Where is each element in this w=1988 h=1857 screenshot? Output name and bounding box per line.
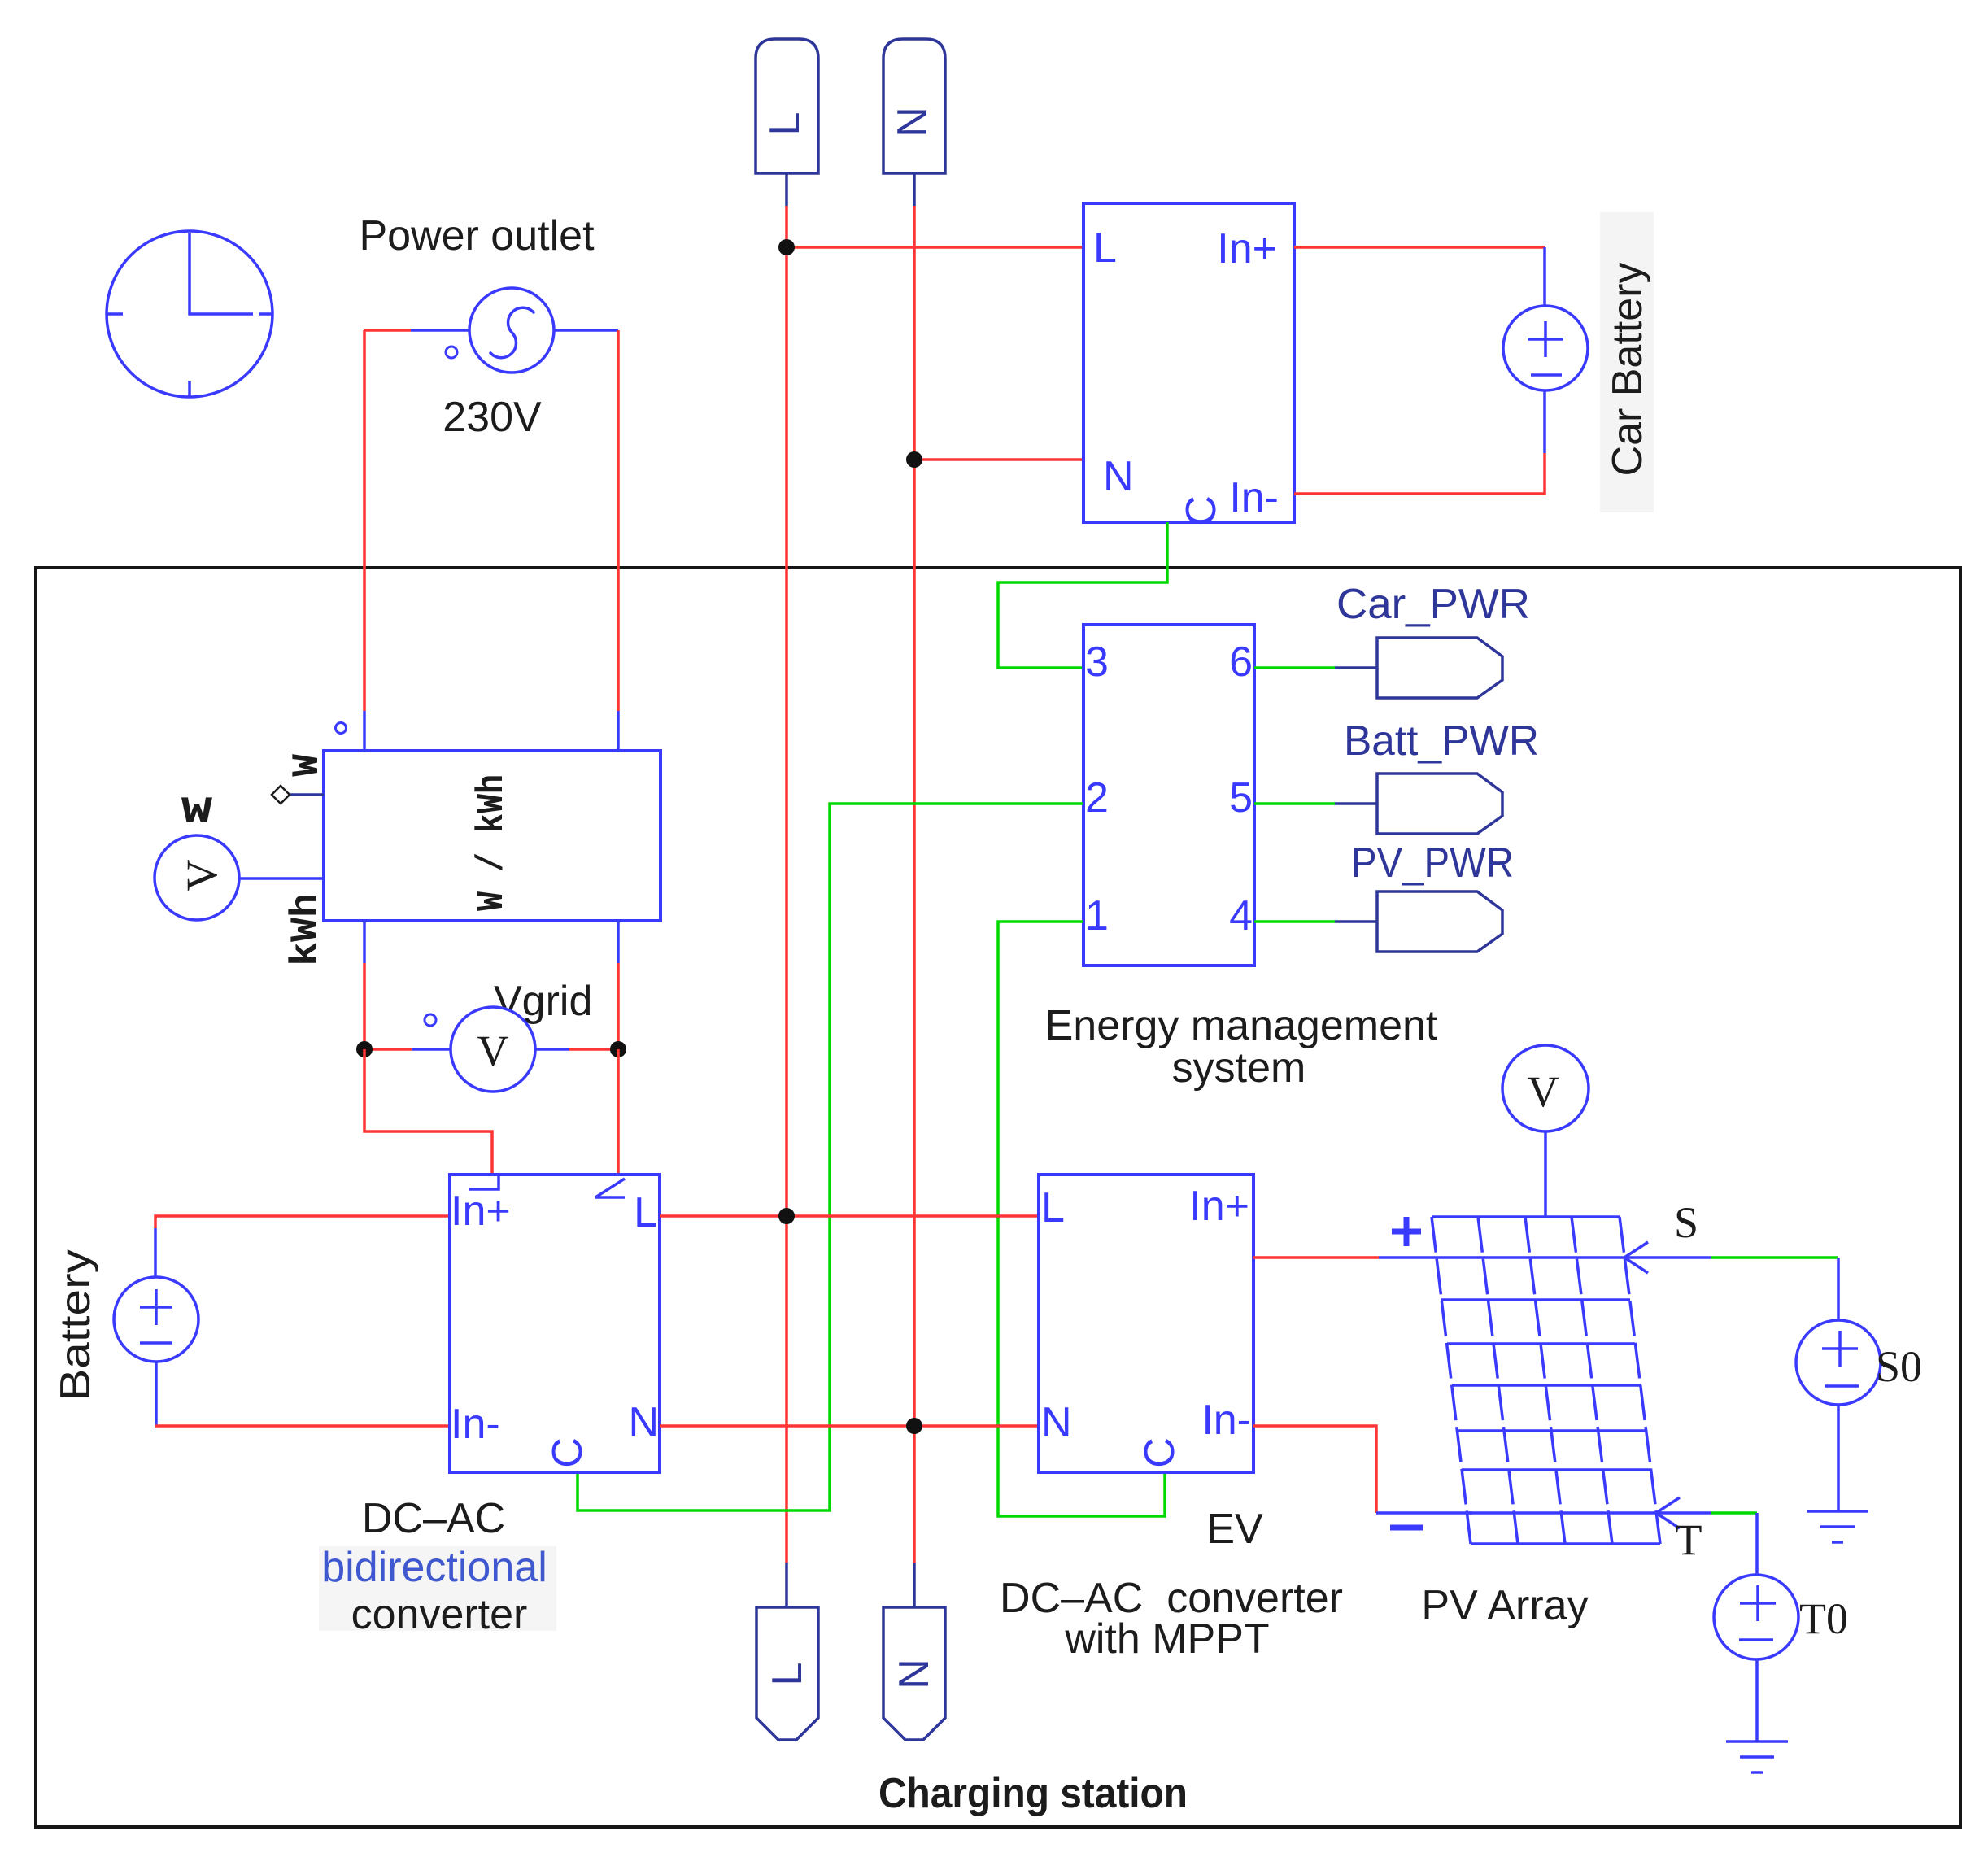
S arrow (1624, 1242, 1648, 1273)
PV minus sign (1390, 1525, 1423, 1531)
terminal N top (883, 39, 945, 173)
wire: meter bottom left red (363, 963, 366, 1049)
svg-text:N: N (891, 1659, 938, 1689)
wire: T row green (1711, 1511, 1757, 1515)
svg-text:1: 1 (1085, 892, 1109, 939)
green wire pin2 to left converter C (578, 804, 1083, 1510)
AC source V1 (469, 288, 554, 373)
pin In+ glyph (469, 1176, 499, 1189)
terminal N bottom (883, 1607, 945, 1740)
wire: left grid vertical blue into meter (363, 711, 366, 751)
wire: EV In- to PV minus red (1253, 1426, 1376, 1513)
junction L row crossing (778, 1208, 795, 1224)
green wire pin6 (1254, 666, 1335, 669)
wire: In+ to car battery red (1294, 246, 1545, 249)
wire: voltmeter to meter blue (239, 877, 324, 880)
wire: PV plus blue (1379, 1256, 1437, 1259)
EV converter block (1039, 1175, 1253, 1472)
svg-text:W: W (181, 791, 213, 834)
svg-text:In-: In- (1201, 1397, 1251, 1444)
junction N row (906, 451, 922, 468)
svg-text:C: C (1178, 495, 1225, 526)
green wire pin1 to EV converter C (998, 922, 1165, 1516)
small circle top-left of meter (336, 723, 347, 734)
svg-text:T0: T0 (1799, 1594, 1848, 1643)
green wire: car converter C to EMS pin3 (998, 522, 1167, 668)
green wire pin4 (1254, 920, 1335, 923)
svg-text:Charging station: Charging station (878, 1770, 1188, 1817)
wire: In- to car battery red (1294, 453, 1545, 494)
wire: T0 drop blue (1755, 1513, 1759, 1576)
car battery source (1503, 306, 1588, 390)
svg-text:6: 6 (1229, 639, 1253, 686)
svg-text:EV: EV (1206, 1506, 1263, 1553)
svg-text:V: V (1528, 1067, 1559, 1116)
wire: jog to In+ top red (364, 1049, 492, 1175)
terminal L top (756, 39, 818, 173)
svg-text:N: N (628, 1399, 659, 1446)
svg-text:kWh: kWh (285, 893, 327, 966)
svg-text:In+: In+ (451, 1188, 511, 1235)
svg-text:Energy management: Energy management (1045, 1002, 1438, 1049)
svg-text:S0: S0 (1876, 1342, 1922, 1391)
wire: S0 drop blue (1837, 1258, 1840, 1321)
wire: AC source right blue (553, 329, 618, 332)
svg-text:Batt_PWR: Batt_PWR (1344, 717, 1539, 765)
wire: T row blue (1658, 1511, 1711, 1515)
battery wire: In+ row red (155, 1216, 450, 1228)
charging station box (36, 568, 1960, 1827)
PV plus sign (1392, 1217, 1421, 1246)
PV array grid (1432, 1217, 1660, 1544)
wire: L row to car converter red (787, 246, 1083, 249)
svg-text:N: N (1103, 453, 1134, 500)
svg-text:L: L (764, 1663, 811, 1686)
junction L row (778, 239, 795, 255)
junction Vgrid right (610, 1041, 626, 1057)
wire: right grid vertical red (617, 330, 620, 711)
lead: N terminal to bus (913, 173, 916, 206)
svg-text:T: T (1676, 1515, 1702, 1564)
T0 source (1714, 1575, 1798, 1659)
svg-text:Car_PWR: Car_PWR (1336, 581, 1530, 628)
green wire pin5 (1254, 802, 1335, 805)
wire: car battery bottom blue (1543, 390, 1546, 453)
lead pin5 connector (1335, 802, 1377, 805)
svg-text:L: L (761, 112, 809, 136)
wire: N row between converters red (660, 1424, 1039, 1428)
svg-text:L: L (1041, 1184, 1065, 1231)
Vgrid voltmeter (451, 1007, 535, 1092)
wire: meter bottom right red (617, 963, 620, 1049)
W/kWh meter block (324, 751, 660, 921)
svg-text:In+: In+ (1217, 225, 1277, 272)
battery source (114, 1277, 198, 1362)
connector PV_PWR (1377, 891, 1502, 952)
S0 source (1796, 1320, 1881, 1405)
lead pin4 connector (1335, 920, 1377, 923)
wire: meter bottom right blue (617, 921, 620, 963)
wire: car battery top blue (1543, 247, 1546, 307)
wire: AC source left blue (411, 329, 470, 332)
W pin lead (289, 793, 324, 796)
battery wire: In- row red (155, 1424, 450, 1428)
svg-text:5: 5 (1229, 774, 1253, 822)
svg-text:with MPPT: with MPPT (1064, 1615, 1269, 1663)
svg-text:2: 2 (1085, 774, 1109, 822)
svg-text:3: 3 (1085, 639, 1109, 686)
car battery gray strip (1600, 212, 1654, 512)
lead: N bus to bottom terminal (913, 1563, 916, 1607)
junction N row crossing (906, 1418, 922, 1434)
wire: left grid vertical red (363, 330, 366, 711)
wire: PV minus blue (1376, 1511, 1472, 1515)
AC source polarity dot (446, 347, 457, 358)
Vgrid polarity dot (425, 1014, 436, 1026)
EMS block (1083, 625, 1254, 966)
wire: L bus vertical red (785, 206, 788, 1563)
wire: right down to L top red (617, 1049, 620, 1175)
svg-text:In-: In- (451, 1401, 500, 1448)
wire: S row blue (1626, 1256, 1711, 1259)
wire: N bus vertical red (913, 206, 916, 1563)
wire: AC source left red (364, 329, 411, 332)
svg-text:Power outlet: Power outlet (359, 212, 595, 259)
battery wire bottom blue (155, 1361, 158, 1426)
lead: L bus to bottom terminal (785, 1563, 788, 1607)
wire: Vgrid row right red (569, 1048, 618, 1051)
svg-text:PV_PWR: PV_PWR (1351, 839, 1514, 887)
svg-text:Battery: Battery (52, 1249, 99, 1401)
W pin diamond (272, 786, 290, 804)
svg-text:PV Array: PV Array (1421, 1582, 1588, 1629)
svg-text:C: C (1136, 1437, 1184, 1468)
ground T0 (1726, 1741, 1788, 1772)
lead: L terminal to bus (785, 173, 788, 206)
car converter block U1 (1083, 203, 1294, 522)
junction Vgrid left (356, 1041, 373, 1057)
svg-text:Car Battery: Car Battery (1604, 263, 1651, 477)
wire: N row to car converter red (914, 458, 1083, 461)
lead pin6 connector (1335, 666, 1377, 669)
svg-text:converter: converter (351, 1591, 528, 1638)
clock symbol (107, 231, 273, 397)
wire: Vgrid row left red (364, 1048, 412, 1051)
pin L glyph angle (595, 1179, 625, 1197)
svg-text:L: L (634, 1189, 657, 1236)
battery wire top blue (154, 1228, 157, 1278)
wire: S0 to ground blue (1837, 1405, 1840, 1511)
wire: Vgrid row right blue (535, 1048, 569, 1051)
ground S0 (1807, 1511, 1868, 1542)
wire: meter bottom left blue (363, 921, 366, 963)
svg-text:V: V (477, 1027, 509, 1075)
svg-text:system: system (1172, 1044, 1306, 1092)
wire: Vgrid row left blue (412, 1048, 450, 1051)
wire: S row green (1711, 1256, 1838, 1259)
svg-text:N: N (889, 107, 936, 137)
svg-text:4: 4 (1229, 892, 1253, 939)
svg-text:W / kWh: W / kWh (471, 774, 513, 911)
terminal L bottom (756, 1607, 818, 1740)
PV voltmeter (1502, 1045, 1589, 1131)
connector Car_PWR (1377, 638, 1502, 698)
svg-text:In+: In+ (1189, 1183, 1249, 1230)
svg-text:bidirectional: bidirectional (321, 1544, 547, 1591)
T arrow (1656, 1497, 1680, 1528)
wire: PV voltmeter drop blue (1544, 1131, 1547, 1217)
wire: right grid vertical blue into meter (617, 711, 620, 751)
svg-text:C: C (544, 1437, 591, 1468)
svg-text:N: N (1041, 1399, 1072, 1446)
svg-text:V: V (177, 860, 226, 891)
svg-text:L: L (1093, 224, 1117, 272)
wire: T0 to ground blue (1755, 1659, 1759, 1741)
svg-text:DC–AC: DC–AC (362, 1495, 505, 1542)
DC-AC bidirectional converter block (450, 1175, 660, 1472)
W voltmeter circle (155, 835, 239, 920)
svg-text:230V: 230V (443, 394, 542, 441)
wire: EV In+ to PV plus red (1253, 1256, 1379, 1259)
svg-text:S: S (1674, 1198, 1698, 1247)
connector Batt_PWR (1377, 774, 1502, 834)
wire: L row between converters red (660, 1214, 1039, 1218)
svg-text:In-: In- (1229, 474, 1279, 521)
svg-text:W: W (286, 754, 329, 777)
gray strip behind converter label (319, 1546, 556, 1631)
